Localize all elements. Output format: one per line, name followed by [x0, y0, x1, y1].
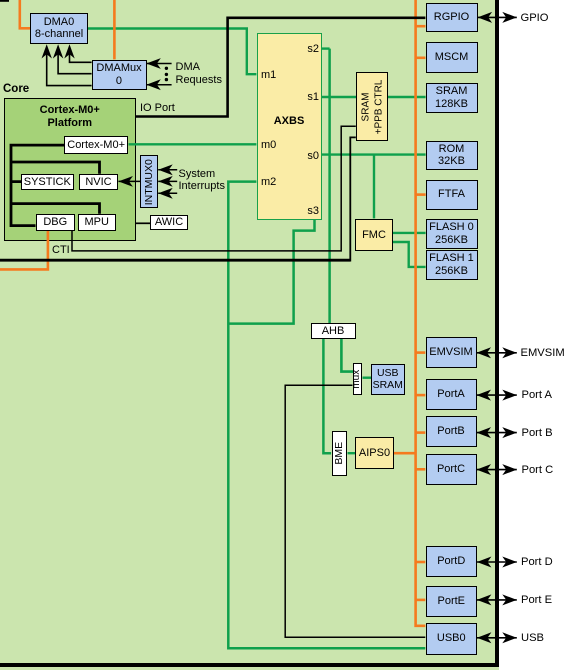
wire green AXBS s1 to SRAM 128KB [322, 96, 426, 98]
wire orange top into DMAMux0 [113, 0, 116, 59]
label AXBS m0 [261, 139, 276, 152]
box BME [332, 431, 347, 476]
label AXBS s2 [303, 43, 319, 56]
arrowhead left into NVIC [118, 176, 132, 187]
wire orange stub PortE [416, 599, 426, 602]
wire black CTI to PPB [72, 126, 356, 251]
bidirectional arrow Port D [477, 557, 517, 568]
wire black system interrupt arrow 1 [158, 169, 177, 171]
label System Interrupts [179, 168, 225, 193]
wire green DMA0 to AXBS m1 [88, 29, 256, 75]
box USB0 [426, 623, 478, 655]
wire thick black platform bus [11, 145, 64, 226]
wire orange stub PortB [416, 431, 426, 434]
label IO Port [140, 102, 175, 115]
label AXBS title [257, 115, 322, 128]
wire green AHB to mux [341, 339, 353, 372]
wire green AXBS s2 stub [322, 47, 330, 49]
label Port A external [522, 389, 552, 402]
box DMAMux0 [92, 60, 147, 91]
box AHB [311, 323, 356, 339]
arrowhead left into DMAMux top [146, 58, 161, 69]
box SRAM 128KB [426, 83, 478, 113]
box SYSTICK [21, 174, 74, 191]
box ROM 32KB [426, 141, 478, 171]
wire black system interrupt arrow 3 [158, 192, 177, 194]
box PortC [426, 454, 477, 485]
label USB external [521, 632, 544, 645]
label AXBS m2 [261, 176, 276, 189]
wire orange top-left into DMA0 [20, 0, 30, 28]
wire green AHB down to BME [323, 339, 331, 454]
box FLASH 0 [426, 219, 478, 250]
label EMVSIM external [521, 347, 565, 360]
wire thick black bus to MPU [11, 204, 100, 214]
wire green BME to AIPS0 [348, 452, 356, 454]
box DBG [36, 214, 76, 232]
box PortA [426, 379, 477, 410]
wire black mux to USB0 [285, 385, 425, 637]
label CTI [52, 244, 70, 257]
label AXBS m1 [261, 69, 276, 82]
wire green FMC to FLASH1 [393, 242, 426, 267]
box SRAM +PPB CTRL [356, 72, 388, 141]
arrowhead up into DMA0 bottom 3 [64, 44, 74, 58]
box INTMUX0 [140, 155, 158, 208]
wire green AXBS s0 to ROM [322, 153, 426, 155]
box AIPS0 [355, 437, 394, 469]
label AXBS s3 [303, 205, 319, 218]
Cortex-M0+ Platform container [4, 98, 136, 241]
box NVIC [79, 174, 119, 191]
wire green Cortex-M0+ to AXBS m0 [129, 143, 257, 145]
wire green AXBS m2 down-left-bottom to USB0 [228, 182, 425, 649]
wire orange stub EMVSIM [416, 351, 426, 354]
label AXBS s1 [303, 91, 319, 104]
wire black DMA request arrow bottom [146, 84, 171, 86]
box USB SRAM [371, 364, 405, 396]
wire green s0 drop to FMC [373, 155, 375, 219]
wire green FMC to FLASH0 [393, 232, 426, 234]
label Port B external [522, 427, 553, 440]
wire orange stub RGPIO [416, 25, 426, 28]
label Port E external [521, 594, 552, 607]
wire black INTMUX0 to NVIC [118, 180, 140, 182]
wire black DMAMux to DMA0 request line 2 [58, 50, 92, 74]
bidirectional arrow Port B [477, 427, 517, 438]
box PortD [426, 546, 478, 577]
wire black DMAMux to DMA0 request line 1 [47, 50, 92, 86]
label DMA Requests [176, 61, 222, 86]
wire black bus riser to PPB [350, 137, 356, 261]
box PortB [426, 416, 477, 447]
label Core [3, 83, 29, 96]
arrowhead up into DMA0 bottom 1 [42, 44, 52, 58]
box FMC [355, 219, 393, 252]
wire black top-left fragment [0, 0, 9, 2]
arrowhead left into INTMUX0 3 [158, 188, 173, 199]
wire green mux to USB SRAM [363, 377, 372, 379]
label AXBS s0 [303, 150, 319, 163]
wire black AWIC to platform [136, 222, 151, 224]
arrowhead up into DMA0 bottom 2 [53, 44, 63, 58]
box Cortex-M0+ core [64, 136, 128, 154]
dots DMA requests [165, 67, 168, 70]
wire thick black IO Port bracket [136, 18, 426, 117]
wire black DMAMux to DMA0 request line 3 [70, 50, 92, 62]
wire green AXBS s3 elbow joining m2 trunk [228, 219, 314, 323]
box FLASH 1 [426, 250, 478, 281]
bidirectional arrow Port A [477, 390, 517, 401]
bidirectional arrow USB [477, 632, 517, 643]
wire orange AIPS0 to trunk [394, 452, 416, 455]
arrowhead left into INTMUX0 1 [158, 164, 173, 175]
wire orange stub PortD [416, 561, 426, 564]
wire black DMA request arrow top [146, 63, 171, 65]
label GPIO [521, 12, 549, 25]
wire orange stub PortC [416, 468, 426, 471]
box DMA0 [30, 13, 88, 45]
wire orange stub FTFA [416, 193, 426, 196]
box FTFA [426, 180, 478, 210]
arrowhead left into INTMUX0 2 [158, 176, 173, 187]
arrowhead left into DMAMux bottom [146, 79, 161, 90]
box MPU [78, 214, 117, 232]
box EMVSIM [426, 337, 477, 368]
box MSCM [426, 42, 478, 73]
white area outside chip (right strip) [499, 0, 570, 670]
bidirectional arrow GPIO [478, 12, 517, 23]
chip boundary right [495, 0, 499, 667]
wire orange stub MSCM [416, 56, 426, 59]
box AXBS [257, 33, 323, 220]
box PortE [426, 586, 478, 617]
wire black system interrupt arrow 2 [158, 180, 177, 182]
wire orange stub PortA [416, 394, 426, 397]
wire orange DBG down and left off-page [0, 231, 48, 270]
box mux [353, 363, 362, 395]
chip boundary bottom [0, 663, 499, 667]
bidirectional arrow EMVSIM [477, 347, 517, 358]
box RGPIO [426, 3, 478, 32]
wire thick black bus to SYSTICK [11, 162, 100, 182]
label Port D external [521, 556, 553, 569]
wire thick black system bus y260 [0, 259, 350, 262]
box AWIC [150, 215, 188, 231]
wire orange peripheral trunk down to USB0 [416, 0, 426, 626]
wire green vertical s2-s1-s0 down to AHB [328, 49, 331, 324]
bidirectional arrow Port E [477, 594, 517, 605]
label Port C external [522, 464, 554, 477]
bidirectional arrow Port C [477, 464, 517, 475]
